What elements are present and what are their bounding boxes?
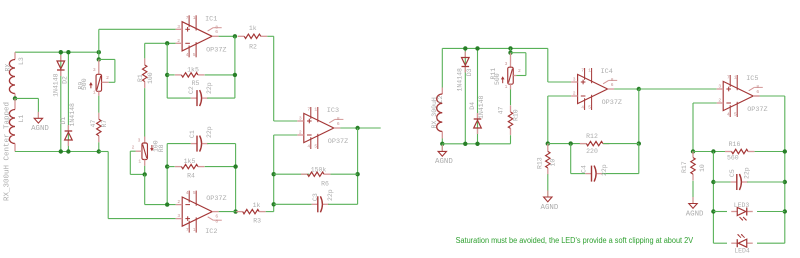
- svg-text:IC3: IC3: [327, 107, 339, 115]
- svg-text:R5: R5: [192, 80, 200, 87]
- svg-text:150k: 150k: [311, 166, 327, 173]
- svg-text:5: 5: [588, 105, 591, 111]
- svg-text:IC5: IC5: [746, 75, 758, 83]
- svg-text:5: 5: [193, 52, 196, 58]
- svg-text:5: 5: [314, 144, 317, 150]
- svg-text:2: 2: [177, 38, 180, 44]
- svg-text:C3: C3: [312, 193, 319, 201]
- svg-text:L3: L3: [18, 57, 25, 65]
- svg-text:D3: D3: [466, 68, 473, 76]
- svg-text:IC4: IC4: [601, 68, 613, 76]
- svg-text:L1: L1: [18, 115, 25, 123]
- svg-text:7: 7: [186, 15, 189, 21]
- svg-text:AGND: AGND: [31, 125, 49, 133]
- svg-text:R13: R13: [537, 157, 544, 169]
- svg-text:2: 2: [573, 91, 576, 97]
- svg-text:22p: 22p: [206, 126, 213, 138]
- svg-text:4: 4: [186, 190, 189, 196]
- svg-text:3: 3: [177, 24, 180, 30]
- svg-text:1N4148: 1N4148: [52, 73, 59, 97]
- svg-text:22p: 22p: [206, 82, 213, 94]
- svg-text:OP37Z: OP37Z: [328, 138, 348, 146]
- svg-text:2: 2: [299, 130, 302, 136]
- svg-text:220: 220: [586, 148, 598, 155]
- svg-text:6: 6: [756, 89, 759, 95]
- svg-text:4: 4: [581, 105, 584, 111]
- svg-text:R12: R12: [586, 133, 598, 140]
- svg-text:C1: C1: [189, 130, 196, 138]
- svg-text:OP37Z: OP37Z: [206, 195, 226, 203]
- svg-text:1k5: 1k5: [187, 66, 199, 73]
- svg-text:1k5: 1k5: [184, 158, 196, 165]
- svg-text:5: 5: [734, 112, 737, 118]
- svg-text:LED4: LED4: [734, 248, 750, 255]
- svg-text:D2: D2: [61, 76, 68, 84]
- svg-text:22p: 22p: [601, 164, 608, 176]
- svg-text:3: 3: [138, 137, 141, 143]
- svg-text:R17: R17: [681, 161, 688, 173]
- svg-text:1: 1: [138, 159, 141, 165]
- svg-text:C4: C4: [581, 165, 588, 173]
- svg-text:7: 7: [727, 75, 730, 81]
- svg-text:C2: C2: [188, 86, 195, 94]
- svg-text:1: 1: [193, 15, 196, 21]
- svg-text:R1: R1: [137, 74, 144, 82]
- svg-text:OP37Z: OP37Z: [747, 106, 767, 114]
- svg-text:R4: R4: [187, 173, 195, 180]
- svg-text:3: 3: [573, 77, 576, 83]
- svg-text:AGND: AGND: [541, 204, 559, 212]
- svg-text:4: 4: [186, 52, 189, 58]
- svg-text:47: 47: [90, 120, 97, 128]
- svg-text:OP37Z: OP37Z: [602, 99, 622, 107]
- svg-text:6: 6: [611, 82, 614, 88]
- svg-text:22p: 22p: [744, 167, 751, 179]
- svg-text:D4: D4: [469, 102, 476, 110]
- svg-text:10: 10: [699, 164, 706, 172]
- svg-text:AGND: AGND: [435, 158, 453, 166]
- svg-text:6: 6: [337, 121, 340, 127]
- svg-text:3: 3: [177, 213, 180, 219]
- svg-text:2: 2: [177, 199, 180, 205]
- svg-text:R6: R6: [321, 180, 329, 187]
- svg-text:RX: RX: [5, 64, 12, 72]
- svg-text:IC2: IC2: [205, 228, 217, 236]
- svg-text:2: 2: [106, 75, 109, 81]
- svg-text:100: 100: [147, 72, 154, 84]
- svg-text:D1: D1: [60, 117, 67, 125]
- svg-text:C5: C5: [729, 169, 736, 177]
- svg-text:3: 3: [505, 61, 508, 67]
- svg-text:1N4148: 1N4148: [69, 103, 76, 127]
- svg-text:1: 1: [588, 68, 591, 74]
- svg-text:AGND: AGND: [686, 210, 704, 218]
- svg-text:Saturation must be avoided, th: Saturation must be avoided, the LED's pr…: [456, 236, 694, 245]
- svg-text:5: 5: [193, 190, 196, 196]
- svg-text:RX_300uH Center Tapped: RX_300uH Center Tapped: [4, 102, 12, 201]
- svg-text:3: 3: [299, 116, 302, 122]
- svg-text:R2: R2: [249, 43, 257, 50]
- svg-text:L2: L2: [437, 95, 444, 103]
- svg-text:3: 3: [718, 84, 721, 90]
- svg-text:1N4148: 1N4148: [457, 68, 464, 92]
- svg-text:1k: 1k: [253, 202, 261, 209]
- svg-text:7: 7: [581, 68, 584, 74]
- svg-text:6: 6: [215, 29, 218, 35]
- svg-text:OP37Z: OP37Z: [206, 46, 226, 54]
- svg-text:1: 1: [734, 75, 737, 81]
- svg-text:R10: R10: [512, 109, 519, 121]
- svg-text:2: 2: [518, 68, 521, 74]
- svg-text:560: 560: [727, 155, 739, 162]
- svg-text:22p: 22p: [327, 189, 334, 201]
- svg-text:500: 500: [81, 78, 88, 90]
- svg-text:IC1: IC1: [205, 15, 217, 23]
- svg-text:7: 7: [186, 227, 189, 233]
- svg-text:500: 500: [494, 73, 501, 85]
- svg-text:R8: R8: [158, 144, 165, 152]
- svg-text:47: 47: [497, 106, 504, 114]
- svg-text:2: 2: [132, 145, 135, 151]
- svg-text:1: 1: [93, 90, 96, 96]
- svg-text:LED3: LED3: [734, 202, 750, 209]
- svg-text:R7: R7: [101, 120, 108, 128]
- svg-text:1: 1: [193, 227, 196, 233]
- svg-text:1k: 1k: [249, 25, 257, 32]
- svg-text:4: 4: [727, 112, 730, 118]
- svg-text:1: 1: [314, 107, 317, 113]
- svg-text:10: 10: [550, 159, 557, 167]
- svg-text:4: 4: [307, 144, 310, 150]
- svg-text:R16: R16: [729, 141, 741, 148]
- svg-text:1: 1: [505, 84, 508, 90]
- svg-text:1N4148: 1N4148: [478, 95, 485, 119]
- svg-text:R3: R3: [253, 217, 261, 224]
- svg-text:6: 6: [215, 214, 218, 220]
- svg-text:2: 2: [718, 98, 721, 104]
- svg-text:7: 7: [307, 107, 310, 113]
- svg-text:3: 3: [93, 67, 96, 73]
